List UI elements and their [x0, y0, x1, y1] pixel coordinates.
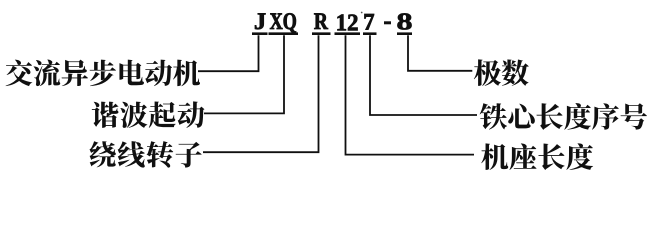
label 铁心长度序号 [480, 103, 647, 130]
underline under 8 [397, 32, 412, 35]
underline under XQ [269, 32, 299, 35]
underline under 7 [363, 32, 377, 35]
leader to 极数 [408, 35, 472, 71]
leader to 机座长度 [346, 35, 475, 154]
code group 8 [398, 13, 412, 29]
code hyphen [384, 21, 391, 24]
leader to 铁心长度序号 [370, 35, 477, 115]
leader to 谐波起动 [204, 35, 284, 113]
label 绕线转子 [90, 141, 202, 167]
code group XQ [270, 13, 296, 33]
leader to 绕线转子 [203, 35, 319, 152]
label 谐波起动 [92, 101, 205, 128]
code group R [314, 13, 328, 29]
stray dot artifact [361, 12, 363, 14]
label 极数 [474, 59, 529, 86]
code group J [255, 13, 265, 29]
underline under J [252, 32, 268, 35]
code group 7 [364, 14, 374, 30]
label 机座长度 [481, 143, 593, 170]
label 交流异步电动机 [6, 60, 200, 87]
code group 12 [337, 15, 357, 31]
leader to 交流异步电动机 [198, 35, 259, 71]
underline under 12 [335, 32, 361, 35]
underline under R [312, 32, 331, 35]
